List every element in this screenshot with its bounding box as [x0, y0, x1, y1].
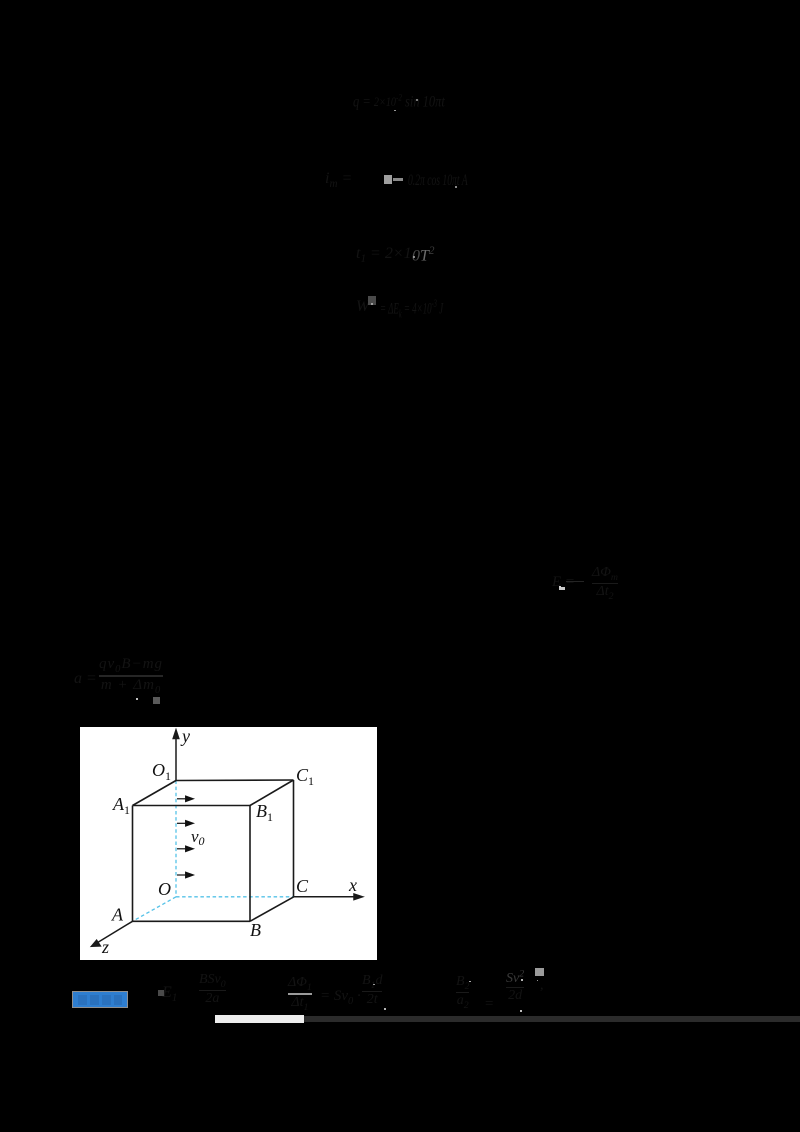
bottom mid terms — [320, 988, 361, 1007]
bright underline strip — [215, 1015, 304, 1023]
edge A-A1 — [131, 806, 133, 922]
hidden edge O-A dashed — [132, 897, 176, 922]
formula 5 (E = dPhi/dt fraction) — [552, 574, 575, 591]
edge B-C — [250, 897, 294, 922]
bottom fraction 1 — [199, 972, 226, 1007]
cube solid edges — [132, 780, 293, 921]
x-axis — [293, 894, 362, 900]
svg-text:v0: v0 — [191, 827, 205, 848]
formula 3 bright dot — [413, 256, 415, 258]
edge O1-C1 — [176, 779, 294, 782]
bottom equals — [484, 996, 494, 1013]
velocity arrow 3 — [177, 846, 193, 851]
formula 4 gray block — [368, 296, 376, 305]
hidden edge O-C dashed — [176, 896, 294, 898]
formula line 1 (q = nBSω/R) — [353, 93, 445, 111]
bottom gray blob superscript — [535, 968, 544, 976]
z-axis — [91, 921, 132, 946]
velocity arrow 1 — [177, 796, 193, 801]
formula 5 fraction — [566, 581, 584, 584]
bottom tail marks — [540, 978, 544, 994]
formula 6 fraction — [99, 656, 163, 696]
edge C1-B1 — [250, 780, 294, 806]
tag character marks — [78, 995, 87, 1005]
formula 3 brighter glyphs — [412, 245, 435, 265]
edge C-C1 — [292, 780, 294, 897]
bottom fraction 3 — [362, 973, 382, 1008]
formula 4 bright dot — [371, 303, 373, 305]
svg-text:y: y — [180, 727, 190, 746]
svg-text:O1: O1 — [152, 760, 171, 783]
formula 5 bright blob — [559, 587, 566, 590]
formula 6 (a = fraction, left margin) — [74, 670, 97, 688]
svg-text:C1: C1 — [296, 765, 314, 788]
velocity arrow 4 — [177, 873, 193, 878]
svg-text:B1: B1 — [256, 801, 273, 824]
svg-text:x: x — [348, 875, 357, 895]
dark underline strip — [304, 1016, 800, 1023]
bottom fraction 4 — [506, 968, 524, 1004]
formula 2 gray dash — [393, 178, 403, 181]
formula 2 gray block — [384, 175, 393, 185]
svg-text:B: B — [250, 920, 261, 940]
velocity arrow 2 — [177, 821, 193, 826]
svg-text:O: O — [158, 879, 171, 899]
bottom formula: E term — [162, 984, 177, 1004]
bottom speckle cluster right 1 — [456, 974, 469, 1011]
edge B-B1 — [249, 806, 251, 922]
svg-text:A: A — [111, 905, 124, 925]
formula 6 gray block — [153, 697, 160, 704]
speckle dots — [394, 110, 396, 112]
y-axis — [173, 730, 179, 781]
edge A1-O1 — [132, 781, 176, 806]
formula line 2 (i = ... cos ...) — [325, 170, 352, 190]
blue tag box — [72, 991, 128, 1008]
bottom fraction 2 — [288, 975, 312, 1013]
svg-text:C: C — [296, 876, 309, 896]
edge A-B — [132, 920, 250, 922]
formula line 3 (fraction with OT) — [356, 245, 412, 265]
svg-text:A1: A1 — [112, 794, 130, 817]
hidden edge O1-O dashed — [175, 781, 177, 897]
svg-text:z: z — [101, 937, 109, 957]
formula line 4 (W = ...) — [356, 298, 369, 316]
bottom gray blob left of E — [158, 990, 164, 996]
edge A1-B1 — [132, 805, 250, 807]
white figure panel — [80, 727, 377, 960]
